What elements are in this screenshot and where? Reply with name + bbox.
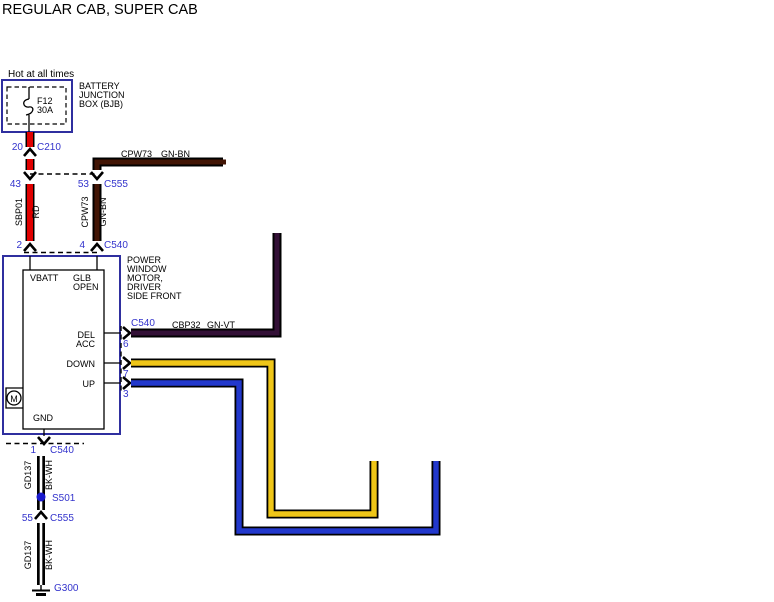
svg-text:S501: S501 — [52, 493, 76, 504]
connector C555 pin 53 — [78, 172, 128, 190]
svg-text:ACC: ACC — [76, 339, 96, 349]
connector C540 vertical (motor side) — [120, 326, 122, 392]
svg-text:43: 43 — [10, 179, 22, 190]
connector C540 pin 7 — [123, 357, 130, 380]
svg-text:UP: UP — [82, 379, 95, 389]
connector C540 pin 1 — [6, 437, 84, 456]
svg-text:CPW73: CPW73 — [80, 196, 90, 227]
svg-text:M: M — [10, 394, 18, 404]
wire GND lead to C540 pin 1 — [43, 429, 45, 436]
connector C540 pin 2 — [16, 240, 100, 253]
battery junction box (BJB) — [2, 69, 125, 132]
svg-text:4: 4 — [79, 240, 85, 251]
svg-text:CBP32: CBP32 — [172, 320, 201, 330]
wire GD137 BK-WH upper segment — [23, 456, 54, 510]
motor M1 — [6, 388, 23, 408]
connector C540 pin 3 — [123, 377, 130, 400]
svg-text:C540: C540 — [50, 445, 74, 456]
wire GD137 BK-WH lower segment — [23, 523, 54, 585]
svg-text:G300: G300 — [54, 583, 79, 594]
svg-text:VBATT: VBATT — [30, 273, 59, 283]
wire CPW11 BU-GY from motor pin 3 to switch pin 2 — [131, 383, 436, 531]
svg-text:CPW73: CPW73 — [121, 149, 152, 159]
svg-text:BK-WH: BK-WH — [44, 540, 54, 570]
svg-text:3: 3 — [123, 389, 129, 400]
svg-text:SIDE FRONT: SIDE FRONT — [127, 291, 182, 301]
wire GLB OPEN lead inside motor box — [96, 256, 98, 270]
svg-text:DOWN: DOWN — [67, 359, 96, 369]
connector C210 pin 20 — [12, 142, 61, 156]
wire CPW73 GN-BN vertical to C540 — [80, 184, 108, 241]
wire CBP32 GN-VT from motor pin 6 up to C555 pin 50 — [131, 233, 277, 333]
pin DEL ACC — [76, 330, 96, 349]
svg-text:GN-BN: GN-BN — [98, 198, 108, 227]
svg-text:53: 53 — [78, 179, 90, 190]
pin GLB OPEN — [73, 273, 99, 292]
svg-text:SBP01: SBP01 — [14, 198, 24, 226]
svg-text:6: 6 — [123, 339, 129, 350]
wire DOWN lead — [104, 362, 121, 364]
svg-text:GD137: GD137 — [23, 461, 33, 490]
svg-text:C555: C555 — [50, 513, 74, 524]
wire SBP01 RD segment from BJB to C210 — [26, 132, 35, 147]
svg-text:30A: 30A — [37, 105, 53, 115]
fuse F12 30A — [24, 87, 53, 132]
svg-text:OPEN: OPEN — [73, 282, 99, 292]
svg-text:2: 2 — [16, 240, 22, 251]
svg-text:REGULAR CAB, SUPER CAB: REGULAR CAB, SUPER CAB — [2, 2, 198, 18]
wire SBP01 RD main segment — [14, 184, 41, 241]
wire DEL ACC lead — [104, 332, 121, 334]
svg-text:GD137: GD137 — [23, 541, 33, 570]
wire CPW10 YE-VT from motor pin 7 to switch pin 1 — [131, 363, 374, 514]
svg-text:GND: GND — [33, 413, 54, 423]
power window motor, driver side front box — [3, 255, 182, 434]
svg-text:C210: C210 — [37, 142, 61, 153]
svg-text:BOX (BJB): BOX (BJB) — [79, 99, 123, 109]
svg-text:C540: C540 — [104, 240, 128, 251]
wire SBP01 RD segment — [26, 159, 35, 170]
connector C540 pin 4 — [79, 240, 128, 251]
connector C555 pin 55 — [22, 512, 74, 524]
svg-text:BK-WH: BK-WH — [44, 460, 54, 490]
svg-text:C540: C540 — [131, 318, 155, 329]
svg-text:GN-BN: GN-BN — [161, 149, 190, 159]
wire UP lead — [104, 382, 121, 384]
splice S501 — [37, 493, 76, 505]
ground G300 (left) — [32, 583, 79, 595]
wire CPW73 GN-BN horizontal from S385 — [97, 149, 226, 170]
svg-text:C555: C555 — [104, 179, 128, 190]
svg-text:RD: RD — [31, 205, 41, 218]
svg-text:Hot at all times: Hot at all times — [8, 69, 74, 80]
svg-text:20: 20 — [12, 142, 24, 153]
connector C540 pin 6 — [123, 318, 155, 350]
connector C555 pin 43 — [10, 172, 97, 190]
svg-text:55: 55 — [22, 513, 34, 524]
wire VBATT lead inside motor box — [29, 256, 31, 270]
svg-text:GN-VT: GN-VT — [207, 320, 236, 330]
svg-text:1: 1 — [30, 445, 36, 456]
